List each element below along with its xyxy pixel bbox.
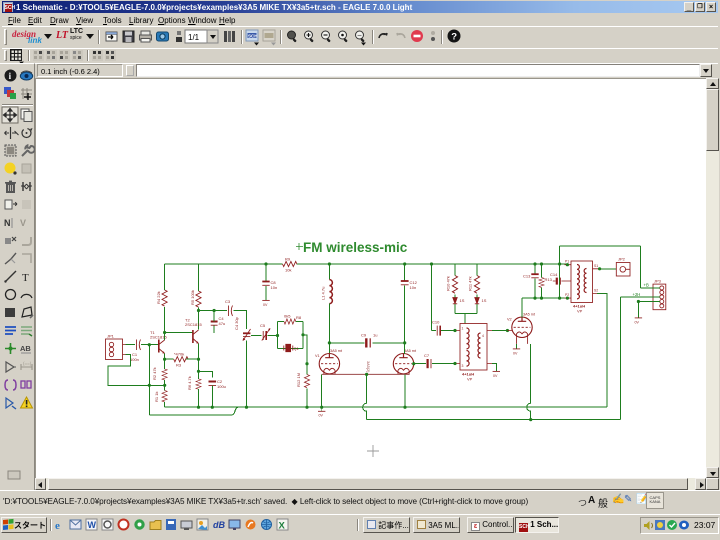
junction divider node: [148, 384, 151, 387]
wire TR1 right-bottom to ground: [492, 364, 496, 372]
pinswap: [21, 182, 32, 191]
wires rail-R13-plate line: [541, 264, 543, 298]
wire tank to grid leak: [303, 335, 307, 375]
tube V1B 3A5: [393, 349, 417, 375]
wire T2 emitter down: [198, 344, 200, 379]
rotate: [22, 128, 33, 138]
capacitor C8: [262, 280, 277, 290]
wire V2 right cathode to filament rail with hop: [527, 344, 531, 420]
svg-text:P1: P1: [565, 260, 569, 264]
ground below V2: [513, 349, 520, 356]
capacitor C14: [550, 272, 565, 285]
wire rail down to coil feed: [432, 264, 437, 331]
wire main ground rail: [165, 406, 607, 408]
junction rail/C12: [403, 262, 406, 265]
tank loop wires: [278, 322, 304, 349]
wire V2 plate feed line: [522, 298, 565, 317]
use library icon: [224, 31, 235, 42]
svg-text:?: ?: [451, 31, 457, 42]
invoke faint: [22, 254, 31, 263]
toolbar row 2: [2, 26, 718, 48]
toolbar2 icon strip as svg: [100, 26, 470, 48]
wire R6 to rail: [198, 389, 200, 407]
gray faint: [22, 200, 31, 209]
horizontal scrollbar: [35, 478, 706, 490]
wire C4 stubs: [213, 311, 215, 334]
resistor R4: [156, 290, 167, 306]
bottom small box: [8, 471, 20, 479]
resistor R3 feedback: [174, 352, 188, 368]
wire R2 to node: [164, 380, 166, 390]
wire TR2 secondary bottom to ground: [597, 294, 607, 408]
svg-text:T: T: [22, 272, 29, 284]
diode D2: [475, 298, 487, 304]
capacitor C10: [432, 320, 440, 336]
info: [5, 70, 17, 82]
trimmer capacitor C4b: [234, 316, 251, 340]
menu bar: [2, 13, 718, 26]
taskbar: [0, 514, 720, 540]
junction rail/C8: [264, 262, 267, 265]
svg-text:0V: 0V: [513, 352, 518, 356]
wire R5 to T2 collector: [198, 308, 200, 330]
capacitor C2 electrolytic: [209, 379, 226, 389]
wire: [4, 271, 16, 283]
print: [140, 31, 152, 42]
zoom select: [339, 31, 348, 43]
title bar: [2, 1, 718, 13]
svg-text:1/1: 1/1: [188, 33, 200, 42]
ground 0V below rail: [318, 407, 325, 417]
zoom fit: [288, 31, 297, 43]
stop: [411, 30, 423, 42]
wire C10 to TR1 pin: [441, 330, 455, 332]
mirror: [5, 127, 19, 139]
junction rail/L1: [328, 262, 331, 265]
svg-text:V2: V2: [507, 318, 512, 322]
cut (yellow): [5, 163, 17, 175]
capacitor C1: [130, 340, 141, 363]
svg-text:+B: +B: [644, 283, 649, 288]
junction rail/C13: [533, 262, 536, 265]
wire C3 to grid column: [234, 311, 247, 330]
wire TR1 right-top to V2 grid: [492, 330, 508, 332]
resistor R11: [468, 276, 480, 294]
junction rail osc feed: [430, 262, 433, 265]
redo (disabled): [397, 33, 405, 38]
wrench/change: [22, 145, 35, 156]
wire pin3 long return: [621, 297, 660, 420]
wire C2 to rail: [211, 386, 213, 408]
copy: [21, 109, 32, 122]
transistor T1 2SC1815: [150, 330, 167, 354]
save floppy: [123, 31, 134, 42]
wire V1A cathode to ground rail: [321, 374, 323, 407]
wire rail to C12: [404, 264, 406, 281]
wire R3 to T2 emitter column: [186, 358, 199, 360]
ground below TR1: [493, 371, 500, 378]
resistor R1: [154, 390, 167, 402]
BRD icon w dropdown (disabled): [263, 30, 276, 46]
svg-text:C13: C13: [523, 274, 531, 279]
wire filament drop with hop: [363, 374, 367, 419]
SCH icon w dropdown: [246, 30, 259, 46]
eye/show: [20, 71, 32, 80]
task buttons: [363, 517, 410, 533]
toolbar row 3: [2, 48, 718, 63]
separator: [441, 30, 442, 44]
svg-text:S1: S1: [594, 264, 598, 268]
undo: [379, 33, 387, 38]
connector JP2 antenna: [616, 257, 630, 277]
wire rail to L1: [328, 264, 330, 280]
wire T1 emitter down: [164, 354, 166, 370]
svg-text:JP2: JP2: [618, 257, 626, 262]
wire C5 to tank: [268, 335, 278, 337]
capacitor C4 electrolytic: [211, 316, 225, 326]
sheet title text: [296, 240, 408, 255]
wires R11-D2-bus: [476, 294, 478, 313]
smash: [5, 237, 16, 244]
left tool palette: [0, 63, 35, 490]
wire grid branch: [251, 335, 262, 337]
net: [21, 327, 32, 336]
svg-text:P2: P2: [565, 293, 569, 297]
quick launch icons: [55, 518, 305, 533]
replace: [5, 200, 17, 209]
arc: [21, 294, 32, 298]
circle: [6, 290, 16, 300]
wire V2 left cathode to ground: [516, 344, 518, 349]
capacitor C5 variable: [260, 323, 270, 341]
wire mic bottom return: [108, 355, 149, 386]
junction mic/base node: [148, 343, 151, 346]
resistor R6: [187, 376, 201, 390]
wire C13 to plate line: [534, 278, 536, 298]
display layers: [4, 87, 16, 99]
wire +B riser: [559, 246, 561, 298]
wire rail to R10: [454, 264, 456, 276]
canvas: [35, 78, 706, 478]
wire rail to C13: [534, 264, 536, 274]
go dots: [431, 31, 435, 41]
junction: [5, 343, 16, 354]
wire L1 to V1A plate: [328, 304, 330, 354]
svg-text:SCH: SCH: [248, 34, 258, 39]
resistor R10: [446, 276, 458, 294]
miter faint: [22, 237, 31, 245]
wire lower-left ground run: [149, 407, 238, 415]
capacitor C13: [523, 274, 539, 279]
open/exchange icon: [106, 32, 117, 41]
svg-text:e: e: [55, 520, 60, 532]
capacitor C3: [225, 299, 233, 316]
ground below JP3: [635, 318, 643, 325]
svg-text:dB: dB: [213, 520, 225, 530]
schematic canvas drawing: [35, 78, 706, 478]
split: [5, 253, 16, 264]
IME toolbar: [578, 492, 678, 511]
diode D1: [453, 298, 465, 304]
transformer TR1: [455, 324, 493, 382]
svg-text:V: V: [20, 218, 26, 228]
svg-text:VP: VP: [577, 309, 583, 314]
sheet origin cross: [367, 445, 379, 457]
wire pin4 to ground: [638, 302, 659, 318]
dimension faint: [21, 361, 32, 370]
wire R12 to rail: [306, 389, 308, 408]
wire emitter to R3: [165, 358, 174, 360]
image/camera: [157, 32, 169, 41]
capacitor C12: [401, 280, 418, 290]
resistor R5: [190, 290, 201, 307]
gate: [6, 362, 16, 372]
inductor L1: [321, 280, 333, 304]
zoom in: [305, 31, 314, 43]
grid: [21, 88, 32, 100]
wire C9b to TR1 pin: [432, 363, 455, 365]
wire C1 to T1 base: [141, 344, 158, 346]
resistor R13: [539, 277, 553, 287]
wire top supply rail: [165, 263, 567, 265]
zoom redraw: [356, 31, 367, 46]
small script icon: [176, 31, 182, 42]
crystal Q1: [284, 344, 300, 351]
separator: [241, 30, 242, 44]
wire rail to R5: [198, 264, 200, 291]
resistor R2: [152, 367, 167, 380]
system tray: [640, 517, 719, 534]
svg-text:3A5 mt: 3A5 mt: [523, 313, 536, 317]
svg-text:X: X: [279, 521, 286, 532]
svg-text:AB: AB: [20, 344, 31, 353]
wire top feed run: [560, 246, 641, 288]
rect: [5, 308, 15, 317]
delete trash: [5, 181, 16, 193]
separator: [280, 30, 281, 44]
transistor T2 2SC1815: [185, 318, 202, 344]
connector JP3 battery: [653, 279, 666, 310]
svg-text:(==): (==): [23, 361, 32, 366]
svg-text:スタート: スタート: [14, 520, 46, 530]
wire C12 to V1B plate: [404, 285, 406, 354]
help: [448, 30, 461, 43]
wire V1B side to C9b: [414, 363, 426, 365]
erc gate arrow: [6, 398, 16, 409]
erc warning: [21, 397, 33, 408]
wire trimmer to ground rail: [246, 341, 248, 408]
wire +B to pin1: [641, 287, 660, 289]
parameter/command bar: [2, 63, 718, 78]
polygon: [22, 307, 33, 318]
bus: [5, 327, 16, 334]
resistor R12 grid leak: [296, 373, 310, 388]
wire rail to R4: [164, 264, 166, 290]
wire rail to R11: [476, 264, 478, 276]
vertical scrollbar: [706, 78, 719, 478]
wire coupling line: [329, 342, 404, 344]
status bar: [0, 490, 720, 514]
ground below C8: [262, 300, 269, 307]
svg-text:C14: C14: [550, 272, 558, 277]
paste (faint): [22, 164, 31, 173]
transformer TR2 output: [565, 260, 600, 314]
name: [4, 218, 12, 228]
separator: [2, 104, 33, 105]
connector JP1 (microphone): [106, 334, 126, 360]
capacitor C9 coupling: [361, 333, 377, 348]
label: [20, 344, 31, 353]
svg-text:R13: R13: [545, 277, 553, 282]
wire filament return rail: [367, 419, 621, 421]
resistor R9 (series in rail): [283, 257, 297, 273]
tube V1A 3A5: [315, 349, 343, 375]
svg-text:W: W: [88, 520, 97, 530]
filament link bus: [322, 373, 410, 375]
move tool (pressed): [2, 107, 18, 123]
wire TR2 secondary to antenna: [600, 268, 617, 270]
text: [22, 272, 29, 284]
tube V2 3A5 power: [507, 313, 536, 344]
svg-text:S2: S2: [594, 289, 598, 293]
wire T1 collector to T2 base: [165, 332, 193, 334]
group: [5, 145, 16, 156]
svg-text:JP3: JP3: [654, 279, 662, 284]
wire mic top: [126, 344, 136, 346]
wires R10-D1-bus: [454, 294, 456, 313]
zoom out: [322, 31, 331, 43]
resistor R8 (tank top): [284, 314, 302, 325]
wire V1B cathode to ground rail: [404, 374, 406, 407]
attribute purple: [5, 380, 16, 390]
wire C8 to ground: [265, 286, 267, 300]
value faint: [20, 218, 26, 228]
svg-text:+2H: +2H: [633, 292, 641, 297]
wire divider to R1/R2 node: [149, 384, 164, 386]
svg-text:0V: 0V: [635, 321, 640, 325]
separator: [372, 30, 373, 44]
sheet combo 1/1: [185, 30, 218, 43]
wire R1 to ground rail: [164, 402, 166, 407]
wire T2 collector node to C3: [199, 310, 228, 312]
svg-text:N: N: [4, 218, 11, 228]
wire rail to C8: [265, 264, 267, 281]
wire bias tap vertical: [148, 345, 150, 415]
wire T1 collector up: [164, 307, 166, 340]
wire emitter bridge to C2: [199, 371, 213, 377]
wire bias bus to TR1 top: [455, 314, 477, 324]
capacitor C9b: [424, 353, 431, 368]
